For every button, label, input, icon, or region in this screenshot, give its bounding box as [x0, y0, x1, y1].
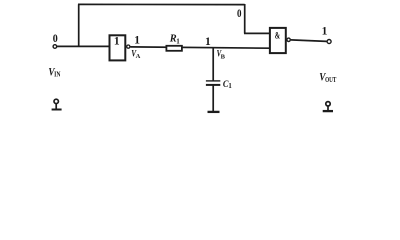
- inverter U1 output inversion bubble: [127, 45, 130, 48]
- wire: node VB down to capacitor C1: [212, 47, 214, 80]
- svg-text:IN: IN: [54, 70, 61, 79]
- svg-text:1: 1: [322, 26, 328, 38]
- output terminal VOUT: [327, 40, 331, 44]
- capacitor C1 bottom plate: [206, 84, 220, 86]
- wire: input terminal to inverter input: [57, 45, 110, 47]
- svg-text:1: 1: [176, 37, 180, 45]
- inverter U1 body: [110, 35, 126, 60]
- svg-text:OUT: OUT: [325, 75, 336, 84]
- svg-text:1: 1: [114, 36, 120, 48]
- input terminal VIN: [53, 45, 57, 49]
- AND gate U2 body: [270, 28, 286, 53]
- ground reference terminal under VOUT: [323, 102, 333, 111]
- wire: NAND output to output terminal: [291, 40, 327, 42]
- wire: capacitor C1 to ground: [212, 86, 214, 112]
- wire: inverter output through resistor to AND gate lower input: [130, 47, 270, 48]
- wire: feedback left vertical: [78, 4, 80, 46]
- wire: feedback top horizontal: [78, 3, 245, 5]
- ground bar under capacitor C1: [208, 111, 220, 113]
- ground reference terminal under VIN: [52, 99, 62, 109]
- capacitor C1 top plate: [206, 80, 220, 82]
- svg-text:A: A: [136, 53, 141, 60]
- wire: feedback right vertical: [244, 4, 246, 33]
- AND gate U2 output inversion bubble: [287, 38, 290, 41]
- svg-text:1: 1: [205, 36, 211, 48]
- svg-text:B: B: [221, 54, 226, 61]
- svg-text:&: &: [275, 31, 281, 41]
- svg-text:0: 0: [53, 33, 58, 45]
- svg-text:1: 1: [228, 83, 232, 90]
- svg-text:1: 1: [134, 34, 140, 46]
- resistor R1 body: [166, 46, 182, 51]
- wire: feedback into AND gate upper input: [244, 32, 270, 34]
- svg-text:0: 0: [237, 8, 242, 20]
